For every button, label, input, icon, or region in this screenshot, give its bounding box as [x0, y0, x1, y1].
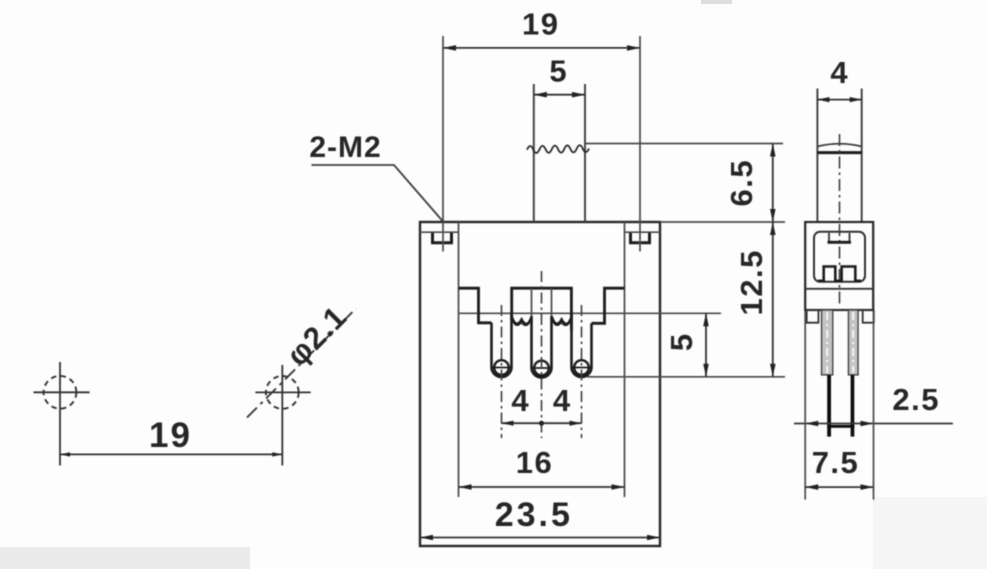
- svg-text:2-M2: 2-M2: [309, 131, 381, 164]
- svg-text:12.5: 12.5: [734, 249, 769, 315]
- pin 1 eyelet: [494, 360, 509, 375]
- front view body outline: [420, 222, 660, 546]
- dim 16: dimension line: [459, 486, 625, 488]
- scan mark top: [701, 0, 732, 4]
- front top plate line left: [420, 231, 459, 233]
- right step contour: [592, 288, 625, 323]
- svg-text:4: 4: [553, 383, 571, 418]
- side ext line left: [804, 311, 806, 500]
- side castellation bumps: [818, 267, 861, 281]
- svg-text:5: 5: [549, 54, 566, 89]
- side pin row 1 upper: [822, 310, 833, 375]
- hole left crosshair: [34, 391, 90, 393]
- svg-text:19: 19: [522, 7, 559, 42]
- side pin row 2 lower: [851, 375, 855, 437]
- side pin row 2 upper: [849, 310, 859, 375]
- dia leader dash-dot: [247, 309, 356, 418]
- hole left dashed circle: [44, 376, 77, 409]
- center block top: [512, 288, 572, 331]
- screw slot left: [433, 233, 452, 243]
- pin 1 centerline: [501, 305, 503, 438]
- svg-text:4: 4: [830, 55, 848, 90]
- reference line shaft to side view: [585, 143, 783, 145]
- cavity wall right: [624, 222, 626, 497]
- hole right crosshair: [255, 391, 310, 393]
- svg-text:19: 19: [149, 416, 192, 455]
- scan shading bottom-right: [873, 497, 987, 569]
- pin 2 outline: [532, 316, 552, 378]
- side body bottom line: [805, 309, 873, 311]
- side center dash-dot: [839, 134, 841, 305]
- dim 19 top: dimension line: [443, 47, 640, 49]
- shaft right edge: [584, 84, 586, 222]
- side body outline: [805, 222, 873, 310]
- dim 7.5 line: [805, 486, 873, 488]
- svg-text:5: 5: [664, 334, 699, 351]
- side top notch: [829, 233, 850, 242]
- side shaft left edge: [816, 89, 818, 223]
- screw slot right: [631, 233, 650, 243]
- pin 3 centerline: [581, 305, 583, 438]
- side inner rounded housing: [814, 232, 865, 282]
- side ext line right: [873, 311, 875, 500]
- dim 12.5 vertical line: [772, 222, 774, 377]
- left step contour: [459, 288, 492, 323]
- dim 2.5 line: [794, 423, 953, 425]
- side bottom notch right: [863, 310, 874, 323]
- body top extension line to side dims: [660, 221, 785, 223]
- side body mid line: [805, 288, 873, 290]
- pin 3 outline: [572, 314, 592, 378]
- pin bottom reference line: [587, 376, 785, 378]
- screw centerline left: [442, 36, 444, 252]
- side pin row 1 lower: [827, 375, 831, 437]
- svg-text:7.5: 7.5: [812, 445, 860, 480]
- side shaft right edge: [861, 89, 863, 223]
- pin 3 eyelet: [574, 360, 589, 375]
- pin 1 outline: [492, 314, 512, 378]
- svg-text:6.5: 6.5: [724, 159, 759, 207]
- pin 2 centerline: [541, 271, 543, 438]
- side shaft cap arc: [817, 144, 861, 147]
- front top plate line right: [625, 231, 661, 233]
- dim 5 right vertical line: [705, 313, 707, 377]
- svg-text:23.5: 23.5: [495, 496, 573, 534]
- side pin connecting bar: [827, 425, 854, 428]
- svg-text:2.5: 2.5: [892, 382, 940, 417]
- shaft break zigzag: [527, 145, 589, 153]
- dim 4 side line: [817, 99, 861, 101]
- crimp wave right gap: [552, 317, 572, 324]
- shaft left edge: [533, 84, 535, 222]
- dim 5 top: dimension line: [534, 94, 585, 96]
- dim 4-4: dimension line: [502, 422, 582, 424]
- dim 23.5: dimension line: [420, 537, 660, 539]
- middle pin upper edges: [531, 288, 533, 316]
- dim 6.5 vertical line: [772, 144, 774, 223]
- side shaft thick band: [817, 151, 861, 154]
- svg-text:16: 16: [516, 445, 553, 480]
- side bottom notch left: [807, 310, 819, 323]
- cavity wall left: [458, 222, 460, 497]
- scan shading bottom-left: [0, 547, 250, 569]
- pin 2 eyelet: [534, 361, 549, 376]
- svg-text:4: 4: [511, 383, 529, 418]
- leader 2-M2: [312, 165, 444, 222]
- dim 19 footprint line: [60, 453, 282, 455]
- hole right dashed circle: [266, 376, 299, 409]
- shelf line: [459, 312, 722, 314]
- screw centerline right: [639, 36, 641, 252]
- crimp wave left gap: [512, 317, 531, 324]
